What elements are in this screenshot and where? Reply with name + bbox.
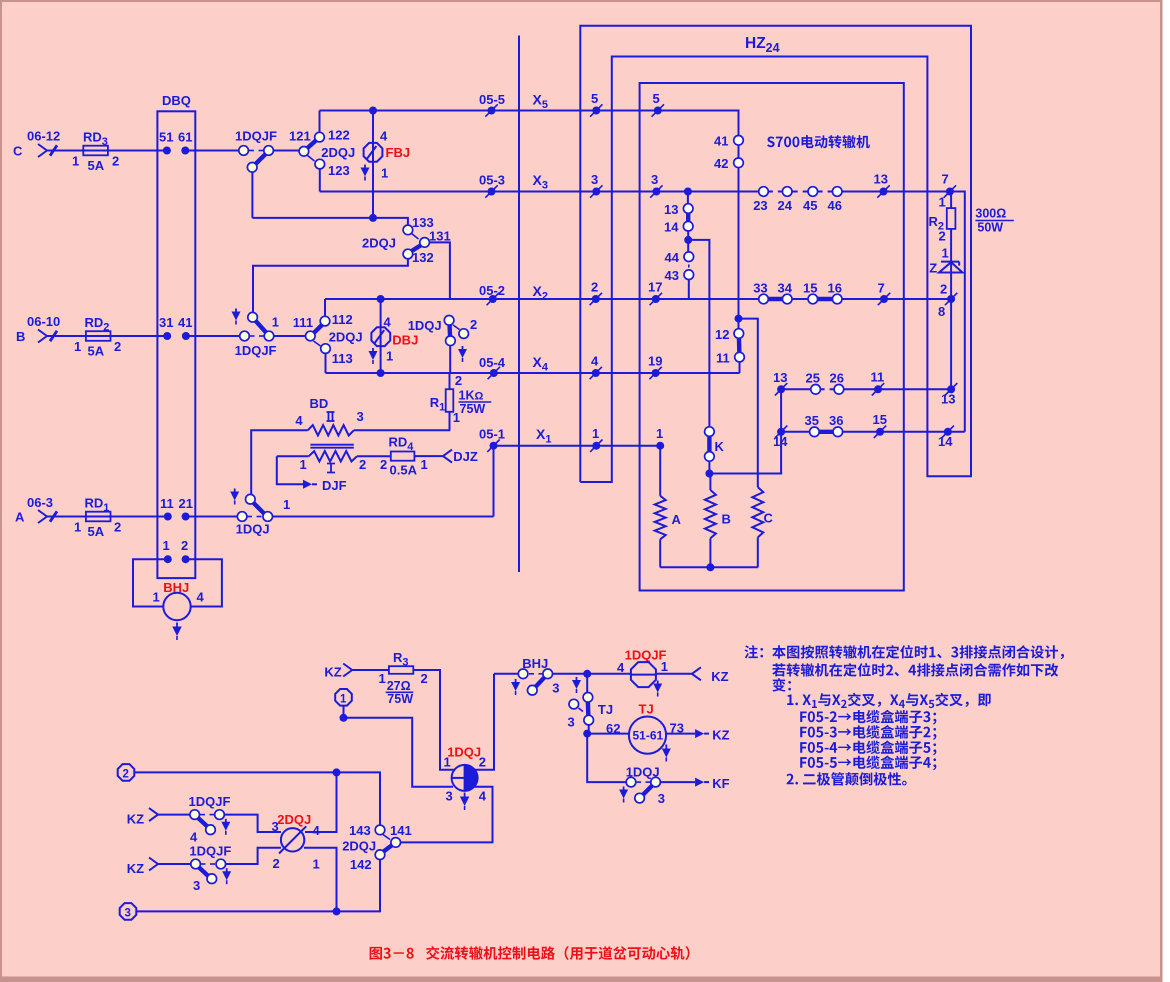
bus HZ24 outer loop xyxy=(580,26,971,482)
TJ coil row xyxy=(587,733,629,735)
svg-text:2: 2 xyxy=(470,317,477,332)
contact point 2 xyxy=(592,295,600,303)
X3 row wire xyxy=(320,192,965,432)
svg-text:13: 13 xyxy=(773,370,787,385)
svg-text:3: 3 xyxy=(552,681,559,696)
contact point 05-4 xyxy=(490,369,498,377)
wire 21 to 1DQJ xyxy=(186,516,238,518)
fuse RD2 5A xyxy=(86,331,111,341)
svg-text:5: 5 xyxy=(653,91,660,106)
svg-text:31: 31 xyxy=(159,315,173,330)
row 2 wire xyxy=(135,772,380,825)
svg-text:112: 112 xyxy=(332,312,353,327)
svg-text:2: 2 xyxy=(380,457,387,472)
svg-text:TJ: TJ xyxy=(639,702,654,717)
wire BD II 3 to R1 xyxy=(354,429,451,431)
svg-text:DBJ: DBJ xyxy=(392,333,418,348)
wire A row xyxy=(47,516,168,518)
svg-text:19: 19 xyxy=(648,354,662,369)
svg-text:15: 15 xyxy=(873,412,887,427)
svg-text:121: 121 xyxy=(289,129,311,144)
svg-text:1: 1 xyxy=(386,349,393,364)
svg-text:TJ: TJ xyxy=(598,702,613,717)
svg-text:11: 11 xyxy=(160,496,174,511)
svg-text:24: 24 xyxy=(778,198,793,213)
X2 row wire xyxy=(325,298,951,300)
svg-text:143: 143 xyxy=(349,823,371,838)
svg-text:BHJ: BHJ xyxy=(163,580,189,595)
contact point 7 (X2 row) xyxy=(880,295,888,303)
X4 row wire xyxy=(326,372,740,374)
wire 1DQJ coil pin2 up to BHJ row xyxy=(474,674,494,770)
svg-text:3: 3 xyxy=(568,715,575,730)
svg-text:45: 45 xyxy=(803,198,817,213)
svg-text:16: 16 xyxy=(828,281,842,296)
row 13 wire xyxy=(781,388,951,390)
svg-text:2: 2 xyxy=(112,154,119,169)
svg-text:4: 4 xyxy=(313,823,321,838)
svg-text:122: 122 xyxy=(328,128,350,143)
wire 122 up to X5 row xyxy=(319,111,321,133)
terminal 2 octagon xyxy=(118,764,135,781)
svg-text:1: 1 xyxy=(661,659,668,674)
svg-text:DJZ: DJZ xyxy=(453,449,478,464)
svg-text:7: 7 xyxy=(878,281,885,296)
contact point 1 (col1) xyxy=(592,442,600,450)
contact point 5 (col2) xyxy=(654,107,662,115)
contact point 13 (row start) xyxy=(777,385,785,393)
svg-text:43: 43 xyxy=(665,268,679,283)
node 61 xyxy=(181,147,189,155)
svg-text:1: 1 xyxy=(153,590,160,605)
svg-text:BD: BD xyxy=(310,396,329,411)
svg-text:14: 14 xyxy=(664,220,679,235)
svg-text:8: 8 xyxy=(938,304,945,319)
svg-text:1DQJF: 1DQJF xyxy=(235,343,277,358)
svg-text:11: 11 xyxy=(871,370,885,385)
svg-text:05-1: 05-1 xyxy=(479,427,505,442)
X1 row wire xyxy=(494,445,661,447)
svg-text:3: 3 xyxy=(125,907,131,919)
transformer BD core bars xyxy=(310,444,353,446)
label S700 motor xyxy=(767,136,775,147)
svg-text:C: C xyxy=(13,144,23,159)
svg-text:1: 1 xyxy=(163,538,170,553)
contact point 13 (X3 row) xyxy=(880,188,888,196)
node 13 (right column) xyxy=(947,385,955,393)
svg-text:50W: 50W xyxy=(977,221,1003,235)
svg-text:1: 1 xyxy=(313,857,320,872)
wire 1DQJF coil to KZ out xyxy=(657,673,692,675)
node 31 xyxy=(163,332,171,340)
svg-text:06-12: 06-12 xyxy=(27,129,60,144)
wire 1DQJF to 111 xyxy=(274,335,306,337)
contact point 05-5 xyxy=(488,107,496,115)
svg-text:3: 3 xyxy=(193,878,200,893)
svg-text:14: 14 xyxy=(938,434,953,449)
terminal 3 octagon xyxy=(120,903,137,920)
svg-text:05-5: 05-5 xyxy=(479,92,505,107)
svg-text:1: 1 xyxy=(381,165,388,180)
caption xyxy=(370,946,690,960)
svg-text:1: 1 xyxy=(656,426,663,441)
wire B row xyxy=(47,335,167,337)
branch to C coil xyxy=(735,315,743,323)
contact point 11 (row 13) xyxy=(874,385,882,393)
svg-text:05-3: 05-3 xyxy=(479,173,505,188)
svg-text:2DQJ: 2DQJ xyxy=(277,812,311,827)
contact point 4 xyxy=(592,369,600,377)
svg-text:44: 44 xyxy=(665,250,680,265)
svg-text:33: 33 xyxy=(753,281,767,296)
svg-text:34: 34 xyxy=(778,281,793,296)
svg-text:1: 1 xyxy=(379,671,386,686)
svg-text:5A: 5A xyxy=(88,158,105,173)
contact K xyxy=(707,432,711,457)
resistor R3 27ohm 75W xyxy=(389,666,413,674)
svg-text:62: 62 xyxy=(606,721,620,736)
wire heel of 1DQJF down to FBJ row xyxy=(251,172,253,218)
node 11 xyxy=(164,513,172,521)
svg-text:2: 2 xyxy=(939,229,946,244)
node to 2DQJ coil pin4 xyxy=(333,768,341,776)
wire 05-1 down to A row xyxy=(493,446,495,517)
svg-text:C: C xyxy=(764,511,774,526)
svg-text:Z: Z xyxy=(929,261,937,276)
wire 123 down to X3 row xyxy=(319,169,321,192)
motor coil A xyxy=(659,446,661,496)
svg-text:3: 3 xyxy=(658,791,665,806)
svg-text:B: B xyxy=(722,512,731,527)
svg-text:142: 142 xyxy=(350,857,372,872)
svg-text:DJF: DJF xyxy=(322,478,347,493)
svg-text:KF: KF xyxy=(712,776,729,791)
svg-text:141: 141 xyxy=(390,823,412,838)
svg-text:51-61: 51-61 xyxy=(633,729,664,743)
svg-text:DBQ: DBQ xyxy=(162,93,191,108)
svg-text:4: 4 xyxy=(384,315,392,330)
note text xyxy=(744,645,763,658)
node 2 (DBQ row 559) xyxy=(182,555,190,563)
wire 131 to X2 column xyxy=(429,242,450,299)
wire 1DQJ coil pin4 down to 141 xyxy=(401,787,493,843)
svg-text:2: 2 xyxy=(181,538,188,553)
wire 13-14 link and down to K bottom xyxy=(781,389,782,473)
svg-text:2: 2 xyxy=(114,520,121,535)
svg-text:7: 7 xyxy=(942,172,949,187)
contacts 25 26 xyxy=(811,385,821,395)
fuse RD1 5A xyxy=(86,512,111,522)
wire 1DQJF to 121 xyxy=(273,150,304,152)
node 14 (right column) xyxy=(944,428,952,436)
svg-text:51: 51 xyxy=(159,130,173,145)
DBQ busbar box xyxy=(157,111,195,578)
node DBJ bottom xyxy=(377,369,385,377)
svg-text:35: 35 xyxy=(805,413,819,428)
svg-text:2: 2 xyxy=(359,457,366,472)
svg-text:11: 11 xyxy=(716,351,730,366)
svg-text:12: 12 xyxy=(715,327,729,342)
relay coil DBJ xyxy=(377,295,385,303)
S700 switch machine box xyxy=(640,83,904,591)
svg-text:06-3: 06-3 xyxy=(27,495,53,510)
wire K column branch xyxy=(688,240,709,427)
svg-text:1DQJF: 1DQJF xyxy=(189,844,231,859)
svg-text:1: 1 xyxy=(74,520,81,535)
contact point 3 (col1) xyxy=(592,188,600,196)
svg-text:4: 4 xyxy=(479,789,487,804)
svg-text:75W: 75W xyxy=(387,692,413,706)
svg-text:BHJ: BHJ xyxy=(522,656,548,671)
svg-text:25: 25 xyxy=(806,371,820,386)
svg-text:14: 14 xyxy=(773,434,788,449)
wire terminal1 to 1DQJ coil pin3 xyxy=(344,718,454,787)
svg-text:4: 4 xyxy=(617,660,625,675)
contact TJ (column) xyxy=(586,674,588,693)
contact 41-42 column xyxy=(738,136,740,319)
contact point 14 (row start) xyxy=(777,428,785,436)
wire BD II to 1DQJ contact (A row) xyxy=(251,430,308,494)
svg-text:3: 3 xyxy=(591,172,598,187)
svg-text:2: 2 xyxy=(591,280,598,295)
svg-text:42: 42 xyxy=(714,156,728,171)
contact point 19 xyxy=(652,369,660,377)
svg-text:61: 61 xyxy=(178,130,192,145)
svg-text:3: 3 xyxy=(446,789,453,804)
contact point 5 (col1) xyxy=(592,107,600,115)
svg-text:23: 23 xyxy=(753,198,767,213)
contact point 17 xyxy=(652,295,660,303)
svg-text:26: 26 xyxy=(830,371,844,386)
svg-text:2DQJ: 2DQJ xyxy=(329,330,363,345)
svg-text:06-10: 06-10 xyxy=(27,314,60,329)
svg-text:13: 13 xyxy=(874,172,888,187)
svg-text:KZ: KZ xyxy=(324,665,341,680)
contact point 05-1 xyxy=(490,442,498,450)
relay coil BHJ with loop wires xyxy=(133,559,168,606)
svg-text:5A: 5A xyxy=(88,524,105,539)
relay coil FBJ xyxy=(369,107,377,115)
svg-text:FBJ: FBJ xyxy=(386,145,411,160)
svg-text:5: 5 xyxy=(591,91,598,106)
wire 113 down to X4 row xyxy=(325,353,327,373)
node below terminal 1 xyxy=(340,714,348,722)
svg-text:KZ: KZ xyxy=(127,812,144,827)
svg-text:0.5A: 0.5A xyxy=(390,463,418,478)
wire 2DQJ coil pin1 to row 3 xyxy=(304,848,337,912)
wire 1DQJ to 05-1 column xyxy=(273,516,494,518)
svg-text:1: 1 xyxy=(444,755,451,770)
row 3 wire xyxy=(137,860,380,912)
svg-text:41: 41 xyxy=(714,134,728,149)
svg-text:2DQJ: 2DQJ xyxy=(362,236,396,251)
svg-text:K: K xyxy=(715,439,725,454)
motor coil C xyxy=(752,487,763,537)
svg-text:1: 1 xyxy=(942,246,949,261)
wire to 2DQJ coil pin3 xyxy=(224,815,281,832)
svg-text:2: 2 xyxy=(123,768,129,780)
svg-text:4: 4 xyxy=(197,590,205,605)
motor contacts 33 34 15 16 (X2 row) xyxy=(764,297,788,301)
svg-text:1DQJ: 1DQJ xyxy=(236,522,270,537)
svg-text:2DQJ: 2DQJ xyxy=(342,839,376,854)
wire FBJ bottom row to 133 xyxy=(369,214,377,222)
node BHJ-TJ xyxy=(583,670,591,678)
svg-text:4: 4 xyxy=(295,413,303,428)
wire R3 to 1DQJ coil pin1 xyxy=(413,670,455,770)
contact point 05-3 xyxy=(488,188,496,196)
BHJ row wire xyxy=(494,673,518,675)
wire 132 down-left to B-row 1DQJF xyxy=(253,259,408,313)
svg-text:4: 4 xyxy=(190,830,198,845)
svg-text:3: 3 xyxy=(357,409,364,424)
node 41 xyxy=(182,332,190,340)
svg-text:15: 15 xyxy=(803,281,817,296)
svg-text:2: 2 xyxy=(273,856,280,871)
svg-text:1: 1 xyxy=(72,154,79,169)
motor contact column 13-14-44-43 xyxy=(687,192,689,204)
terminal 1 octagon xyxy=(335,689,352,706)
svg-text:75W: 75W xyxy=(460,402,486,416)
svg-text:1: 1 xyxy=(283,497,290,512)
node 1 (A coil) xyxy=(656,442,664,450)
contact point 7 (X3 row) xyxy=(946,188,954,196)
contact point 05-2 xyxy=(489,295,497,303)
svg-text:1DQJ: 1DQJ xyxy=(447,745,481,760)
svg-text:1: 1 xyxy=(939,195,946,210)
node K bottom xyxy=(705,470,713,478)
motor coils common wire xyxy=(660,566,758,568)
svg-text:111: 111 xyxy=(293,315,313,330)
svg-text:05-2: 05-2 xyxy=(479,283,505,298)
svg-text:4: 4 xyxy=(380,128,388,143)
svg-text:2: 2 xyxy=(479,755,486,770)
contact 12-11 column xyxy=(738,319,740,329)
svg-text:36: 36 xyxy=(829,413,843,428)
wire 41 to 1DQJF xyxy=(186,335,240,337)
svg-text:1: 1 xyxy=(592,426,599,441)
svg-text:4: 4 xyxy=(591,354,599,369)
svg-text:05-4: 05-4 xyxy=(479,355,506,370)
wire C row xyxy=(47,150,167,152)
node 21 xyxy=(182,513,190,521)
svg-text:1: 1 xyxy=(300,457,307,472)
svg-text:123: 123 xyxy=(328,163,350,178)
svg-text:131: 131 xyxy=(429,229,451,244)
wire 61 to 1DQJF xyxy=(185,150,239,152)
node TJ row xyxy=(583,730,591,738)
svg-text:A: A xyxy=(672,512,682,527)
row 14 wire xyxy=(781,431,965,433)
svg-text:13: 13 xyxy=(941,392,955,407)
svg-text:A: A xyxy=(15,510,25,525)
node X3 to motor contact column xyxy=(684,188,692,196)
wire 112 up to X2 row xyxy=(324,299,326,316)
svg-text:2: 2 xyxy=(421,671,428,686)
svg-text:2DQJ: 2DQJ xyxy=(321,145,355,160)
motor coil B xyxy=(709,474,711,491)
svg-text:1: 1 xyxy=(340,693,347,705)
contacts 35 36 xyxy=(814,430,837,434)
svg-text:1DQJF: 1DQJF xyxy=(189,794,231,809)
KF row xyxy=(587,734,626,783)
cable dividing line xyxy=(518,36,520,573)
svg-text:3: 3 xyxy=(272,819,279,834)
svg-text:300​Ω: 300​Ω xyxy=(975,207,1006,221)
svg-text:KZ: KZ xyxy=(712,727,729,742)
svg-text:46: 46 xyxy=(828,198,842,213)
svg-text:2: 2 xyxy=(940,282,947,297)
svg-text:1KΩ: 1KΩ xyxy=(459,389,484,403)
svg-text:2: 2 xyxy=(455,373,462,388)
svg-text:KZ: KZ xyxy=(127,861,144,876)
svg-text:5A: 5A xyxy=(88,344,105,359)
svg-text:21: 21 xyxy=(179,496,193,511)
svg-text:2: 2 xyxy=(114,339,121,354)
contact point 15 (row 14) xyxy=(876,428,884,436)
wire to 2DQJ coil pin2 xyxy=(226,848,281,864)
svg-text:1: 1 xyxy=(74,339,81,354)
svg-text:27​Ω: 27​Ω xyxy=(387,679,411,693)
fuse RD3 5A xyxy=(83,146,108,156)
svg-text:41: 41 xyxy=(178,315,192,330)
svg-text:1: 1 xyxy=(272,315,279,330)
node 51 xyxy=(163,147,171,155)
node 1 (DBQ row 559) xyxy=(164,555,172,563)
svg-text:1DQJF: 1DQJF xyxy=(235,129,277,144)
svg-text:13: 13 xyxy=(664,202,678,217)
svg-text:KZ: KZ xyxy=(711,669,728,684)
motor contacts 23 24 45 46 (X3 row) xyxy=(773,190,778,194)
X5 row wire xyxy=(320,111,739,136)
wire DJF stub xyxy=(277,456,303,484)
contact point 2-8 (X2 row) xyxy=(947,295,955,303)
svg-text:1DQJ: 1DQJ xyxy=(408,318,442,333)
contact point 3 (col2) xyxy=(652,188,660,196)
svg-text:132: 132 xyxy=(412,250,434,265)
wire RD4 to DJZ xyxy=(414,455,443,457)
svg-text:17: 17 xyxy=(648,280,662,295)
resistor R2 300ohm 50W xyxy=(950,192,952,209)
svg-text:3: 3 xyxy=(651,172,658,187)
svg-text:B: B xyxy=(16,329,25,344)
svg-text:1: 1 xyxy=(421,457,428,472)
svg-text:113: 113 xyxy=(332,351,353,366)
